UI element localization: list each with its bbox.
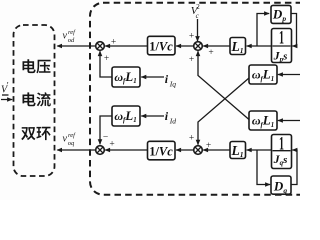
svg-text:ref: ref (68, 29, 76, 36)
svg-text:+: + (189, 32, 194, 42)
svg-text:+: + (206, 141, 211, 151)
svg-text:+: + (208, 48, 213, 58)
svg-text:+: + (104, 54, 109, 64)
svg-text:v: v (63, 134, 68, 145)
svg-text:v: v (63, 31, 68, 42)
svg-text:Id: Id (169, 116, 176, 125)
svg-text:1: 1 (279, 29, 284, 49)
svg-text:+: + (189, 55, 194, 65)
svg-text:1/Vc: 1/Vc (149, 145, 173, 159)
svg-text:1: 1 (279, 134, 284, 154)
svg-text:+: + (189, 133, 194, 143)
svg-text:Iq: Iq (169, 79, 176, 88)
svg-text:2: 2 (196, 3, 200, 11)
svg-text:+: + (111, 38, 116, 48)
svg-text:ref: ref (68, 132, 76, 139)
svg-text:od: od (68, 37, 75, 44)
svg-text:oq: oq (68, 140, 75, 147)
svg-text:1/Vc: 1/Vc (149, 40, 173, 54)
svg-text:+: + (109, 139, 114, 149)
svg-text:′: ′ (7, 81, 9, 91)
svg-text:−: − (103, 133, 108, 143)
